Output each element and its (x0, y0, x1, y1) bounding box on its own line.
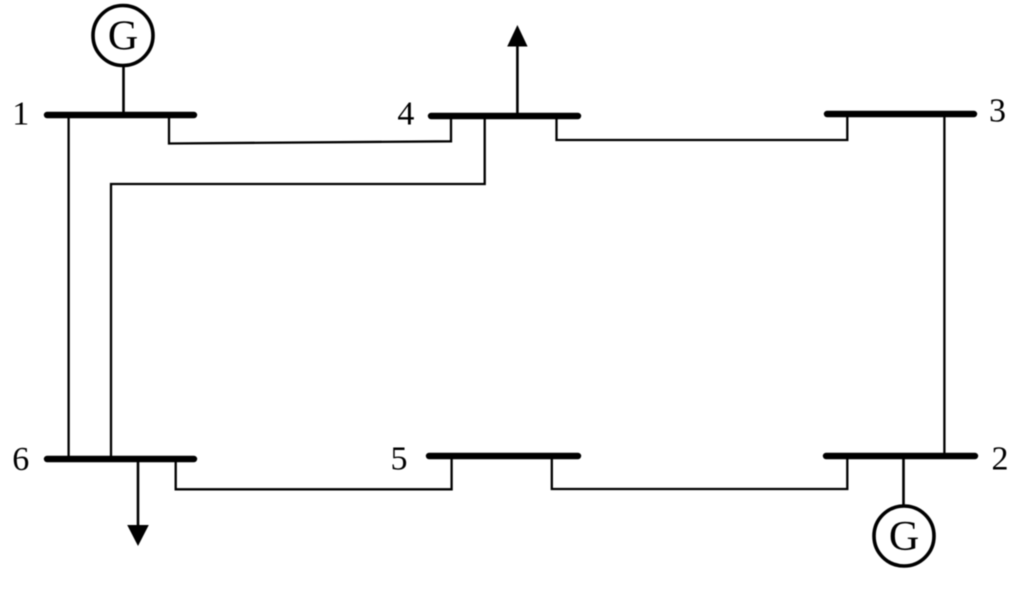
bus 5 (429, 453, 578, 459)
generator G1 circle (93, 6, 153, 66)
bus 2 (826, 453, 975, 459)
svg-text:G: G (889, 514, 919, 560)
svg-text:4: 4 (397, 96, 414, 133)
wire line 1-6 (67, 115, 69, 459)
generator G1 lead wire (122, 66, 125, 113)
svg-text:G: G (108, 14, 138, 60)
svg-text:5: 5 (391, 441, 408, 478)
svg-text:6: 6 (12, 441, 29, 478)
load arrow head at bus 4 (507, 25, 527, 47)
wire line 5-2 (552, 456, 848, 489)
svg-text:3: 3 (989, 93, 1006, 130)
wire line 1-4 (169, 115, 451, 144)
load arrow at bus 4 (stem) (516, 44, 519, 113)
wire line 4-3 (557, 114, 848, 140)
load arrow at bus 6 (stem) (137, 461, 140, 527)
bus 3 (827, 111, 974, 117)
svg-text:2: 2 (992, 441, 1009, 478)
generator G2 lead wire (902, 457, 905, 506)
svg-text:1: 1 (12, 96, 29, 133)
generator G2 circle (874, 506, 934, 566)
wire line 3-2 (943, 114, 945, 456)
bus 6 (47, 456, 194, 462)
bus 1 (47, 112, 194, 118)
wire line 4-6 (111, 116, 485, 459)
bus 4 (431, 113, 578, 119)
wire line 6-5 (176, 456, 452, 489)
load arrow head at bus 6 (127, 525, 149, 546)
